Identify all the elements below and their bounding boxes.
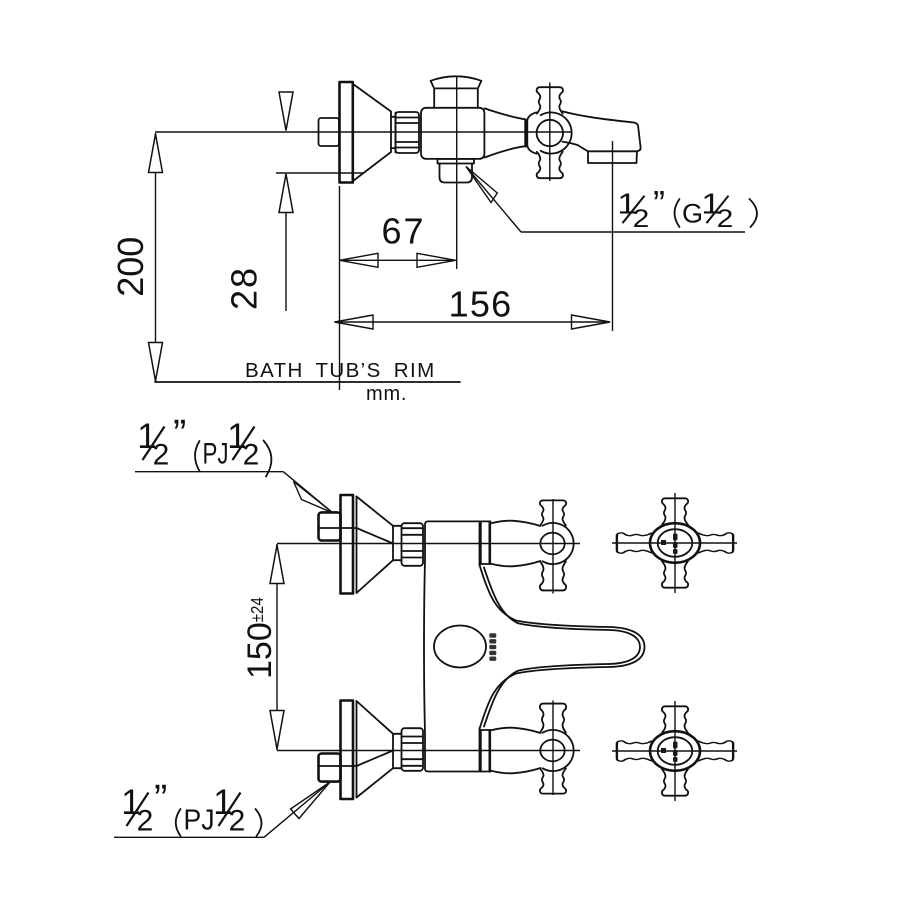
node: wall flange plate (side view) bbox=[340, 82, 353, 183]
svg-text:150±24: 150±24 bbox=[241, 597, 279, 679]
node: collar lines top valve bbox=[480, 521, 482, 564]
node: escutcheon cone (side view) bbox=[353, 84, 391, 181]
node: bath tub rim line bbox=[155, 381, 460, 383]
node: ribbed nut (side view) bbox=[396, 112, 420, 153]
node: spout outlet collar (side view) bbox=[438, 159, 475, 164]
svg-text:PJ: PJ bbox=[184, 805, 215, 837]
node: bottom handle hub trumpet bbox=[491, 728, 541, 774]
node: handle top spoke (side view) bbox=[537, 87, 563, 113]
wire: main horizontal centerline bbox=[155, 131, 572, 133]
node: spout (side view) bbox=[562, 111, 641, 163]
node: collar top bbox=[393, 526, 402, 560]
wire: faucet vertical centerline / 67 right extension bbox=[456, 76, 458, 270]
node: label 1/2"(PJ1/2) lower bbox=[121, 777, 261, 838]
node: collar lines bottom valve bbox=[480, 730, 482, 772]
wire: bottom inlet centerline bbox=[277, 750, 580, 752]
node: wall nipple (side view) bbox=[319, 118, 340, 146]
node: lower leader arrow bbox=[291, 782, 331, 819]
node: valve body (side view) bbox=[421, 108, 484, 159]
svg-text:156: 156 bbox=[449, 284, 513, 325]
svg-text:”: ” bbox=[173, 412, 186, 456]
node: spout arm inner outline bbox=[484, 568, 640, 727]
wire: left extension line x=339.5 bbox=[339, 186, 341, 390]
node: handle outer circle (side view) bbox=[541, 112, 572, 153]
dimension 200: vertical line bbox=[155, 133, 157, 382]
node: standalone cross handle bottom bbox=[612, 701, 737, 801]
node: logo text bbox=[489, 633, 496, 661]
wire: upper label underline and leader bbox=[135, 471, 283, 473]
node: spout outlet nut (side view) bbox=[440, 164, 473, 183]
svg-text:28: 28 bbox=[224, 266, 265, 310]
node: diverter knob on top bbox=[431, 76, 482, 108]
node: label 1/2"(G 1/2) bbox=[617, 183, 757, 232]
dimension 200: bottom arrow bbox=[149, 343, 163, 382]
svg-text:”: ” bbox=[653, 183, 665, 224]
svg-text:67: 67 bbox=[381, 211, 425, 252]
node: top attached handle bbox=[540, 499, 574, 594]
node: faucet body front view bbox=[424, 521, 491, 771]
wire: lower label underline and leader bbox=[114, 836, 264, 838]
node: upper leader arrow bbox=[294, 482, 334, 514]
dimension 200: top arrow bbox=[149, 134, 163, 173]
node: connector collar (side view) bbox=[391, 117, 396, 148]
node: wall flange top bbox=[341, 495, 354, 594]
svg-text:G: G bbox=[682, 199, 703, 229]
node: wall nipple top bbox=[319, 512, 341, 540]
wire: right extension line for 156 bbox=[612, 141, 614, 331]
node: body right edge top bbox=[479, 523, 481, 565]
node: bottom attached handle bbox=[540, 701, 574, 796]
node: ribbed nut top bbox=[402, 523, 424, 566]
node: handle skirt (side view) bbox=[527, 112, 536, 153]
svg-text:PJ: PJ bbox=[203, 438, 229, 471]
node: top inlet assembly bbox=[319, 495, 424, 594]
node: standalone cross handle top bbox=[612, 493, 737, 593]
node: bottom inlet assembly (mirrored) bbox=[319, 701, 424, 800]
node: handle inner circle (side view) bbox=[537, 120, 563, 146]
node: top handle hub trumpet bbox=[491, 521, 541, 567]
node: label 1/2"(PJ1/2) upper bbox=[137, 412, 271, 477]
dimension 150+-24: line bbox=[276, 544, 278, 750]
wire: handle vertical centerline bbox=[549, 83, 551, 182]
node: leader arrow outline bbox=[466, 167, 497, 203]
node: body right edge bottom bbox=[479, 728, 481, 770]
svg-text:mm.: mm. bbox=[366, 383, 407, 405]
svg-text:200: 200 bbox=[110, 237, 151, 297]
node: body ellipse emblem bbox=[434, 626, 486, 668]
svg-text:BATH TUB’S RIM: BATH TUB’S RIM bbox=[245, 359, 436, 382]
node: cone slants bbox=[357, 497, 394, 594]
wire: top inlet centerline bbox=[277, 543, 580, 545]
dimension 156: line and arrows bbox=[335, 321, 611, 323]
dimension 67: line and arrows bbox=[340, 259, 457, 261]
dimension 28: tick line bbox=[276, 172, 364, 174]
node: handle hub cone (side view) bbox=[485, 108, 526, 157]
dimension 28: lower segment and arrow bbox=[285, 174, 287, 311]
node: handle bottom spoke (side view) bbox=[537, 152, 563, 178]
dimension 28: upper segment and arrow bbox=[285, 93, 287, 131]
svg-text:”: ” bbox=[154, 777, 167, 821]
node: cone base edge bbox=[356, 497, 358, 593]
node: spout arm outer outline bbox=[480, 565, 645, 729]
wire: leader to outlet G1/2 bbox=[466, 167, 521, 233]
